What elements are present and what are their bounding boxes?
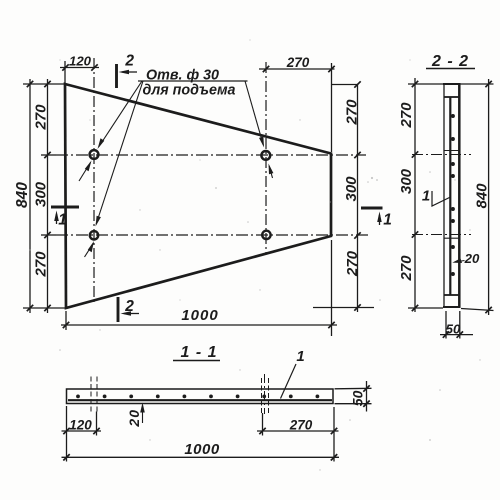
section 2-2 chain line bbox=[414, 78, 416, 312]
svg-text:Отв. ф 30: Отв. ф 30 bbox=[146, 68, 219, 84]
dim 1000 main ext right bbox=[331, 240, 333, 336]
section mark 2 top arrow bbox=[122, 71, 137, 73]
section 2-2 dim 840 tick top bbox=[485, 81, 491, 87]
left chain ext row2 bbox=[41, 234, 56, 236]
right chain line bbox=[357, 85, 359, 313]
dim 840 tick bottom bbox=[27, 305, 33, 311]
section 2-2 dim 50 line bbox=[440, 334, 473, 336]
section 1-1 dim 1000 ext left bbox=[66, 406, 68, 462]
left chain line bbox=[47, 79, 49, 313]
section 2-2 plate bottom edge bbox=[443, 306, 461, 308]
section 1-1 dim 50 ext top bbox=[335, 387, 372, 390]
dim 120 line bbox=[60, 67, 99, 69]
svg-text:2: 2 bbox=[124, 53, 134, 70]
section 2-2 rebar bar bbox=[449, 97, 451, 295]
svg-text:270: 270 bbox=[289, 418, 313, 433]
left chain ext row1 bbox=[41, 154, 56, 156]
svg-text:120: 120 bbox=[69, 54, 92, 69]
section 1-1 dim 270 line bbox=[257, 430, 339, 432]
section 1-1 dim 270 tick left bbox=[259, 428, 265, 434]
dim 270 top extension bbox=[331, 63, 333, 152]
left chain tick y84 bbox=[44, 81, 50, 87]
dim 1000 main ext left bbox=[65, 311, 67, 330]
plate outline (trapezoid) bbox=[65, 84, 331, 308]
section mark 2 bottom arrow bbox=[124, 313, 139, 315]
section 1-1 dim 270 ext left bbox=[262, 413, 264, 436]
section 2-2 chain tick y154 bbox=[412, 151, 418, 157]
section 1-1 hole centerline right pair bbox=[261, 378, 263, 413]
leader shelf bbox=[138, 80, 248, 82]
dim 270 top tick right bbox=[328, 66, 334, 72]
section 2-2 chain ext bottom bbox=[408, 307, 443, 309]
section 2-2 chain tick y84 bbox=[412, 81, 418, 87]
section 2-2 dim 20 arrow bbox=[455, 261, 465, 263]
section 1-1 dim 1000 tick right bbox=[331, 454, 337, 460]
section 1-1 plate outline bbox=[67, 389, 334, 404]
section 2-2 rebar label leader bbox=[432, 191, 451, 206]
section 1-1 dim 270 tick right bbox=[331, 428, 337, 434]
svg-text:270: 270 bbox=[286, 55, 310, 70]
section 1-1 dim 1000 tick left bbox=[63, 454, 69, 460]
section mark 1 left bbox=[51, 206, 79, 209]
svg-text:300: 300 bbox=[343, 176, 360, 202]
section 1-1 rebar dots bbox=[76, 395, 80, 399]
section 2-2 centerline row1 bbox=[412, 154, 471, 156]
svg-text:300: 300 bbox=[398, 168, 415, 194]
section 2-2 chain ext top bbox=[408, 83, 443, 85]
section 2-2 dim 50 ext left bbox=[445, 311, 447, 339]
svg-text:20: 20 bbox=[464, 251, 480, 266]
dim 840 ext top bbox=[23, 83, 64, 85]
section 1-1 dim 120 tick right bbox=[93, 428, 99, 434]
centerline horizontal top hole row bbox=[56, 154, 366, 156]
section 1-1 dim 120 ext right bbox=[96, 412, 98, 436]
section 2-2 title underline bbox=[426, 68, 475, 70]
section 2-2 dim 840 ext bottom bbox=[461, 309, 494, 311]
svg-text:2: 2 bbox=[124, 298, 134, 315]
svg-text:50: 50 bbox=[350, 390, 366, 406]
left chain tick y308 bbox=[44, 305, 50, 311]
section 2-2 dim 50 ext right bbox=[459, 311, 461, 339]
section 2-2 plate left edge bbox=[443, 84, 445, 307]
dim 270 top tick left bbox=[263, 66, 269, 72]
section 1-1 dim 120 line bbox=[62, 430, 102, 432]
leader to bottom-left hole bbox=[96, 81, 143, 224]
right chain top boundary bbox=[332, 84, 358, 86]
section 1-1 dim 1000 line bbox=[62, 456, 340, 458]
svg-text:1: 1 bbox=[422, 188, 430, 205]
scan noise speckles bbox=[29, 39, 480, 470]
hole top-right bbox=[261, 151, 270, 160]
right chain bottom boundary bbox=[313, 307, 374, 309]
svg-text:270: 270 bbox=[33, 251, 50, 278]
section 1-1 dim 50 ext bottom bbox=[335, 403, 372, 405]
right chain tick y307 bbox=[354, 304, 360, 310]
left chain tick y235 bbox=[44, 232, 50, 238]
centerline vertical right hole column bbox=[265, 62, 267, 254]
section mark 2 bottom bbox=[117, 297, 120, 322]
section mark 1 left arrow bbox=[56, 214, 58, 224]
section 1-1 dim 1000 ext right bbox=[333, 407, 335, 462]
section 2-2 cap line top bbox=[444, 96, 459, 98]
leader stub bottom-left hole bbox=[85, 245, 93, 258]
section 2-2 chain tick y308 bbox=[412, 305, 418, 311]
svg-text:840: 840 bbox=[474, 183, 491, 209]
svg-text:270: 270 bbox=[398, 255, 415, 282]
section 2-2 plate top edge bbox=[443, 83, 461, 85]
section 1-1 dim 120 tick left bbox=[63, 428, 69, 434]
section 2-2 dim 50 tick right bbox=[457, 331, 463, 337]
section 1-1 dim 20 arrow bbox=[142, 405, 144, 423]
hole top-left bbox=[90, 150, 99, 159]
section 1-1 title underline bbox=[173, 360, 220, 362]
section 2-2 dim 840 ext top bbox=[461, 83, 494, 85]
section 2-2 hole edge row2 bbox=[444, 237, 461, 239]
dim 1000 main tick left bbox=[63, 322, 69, 328]
right chain tick y235 bbox=[354, 232, 360, 238]
svg-text:270: 270 bbox=[344, 250, 361, 277]
svg-text:1 - 1: 1 - 1 bbox=[180, 344, 217, 361]
dim 270 top line bbox=[259, 68, 335, 70]
svg-text:1: 1 bbox=[383, 212, 392, 229]
centerline vertical left hole column bbox=[93, 58, 95, 302]
SECTION 1-1 bbox=[67, 361, 334, 415]
section 2-2 dim 840 line bbox=[488, 79, 490, 315]
dim 840 tick top bbox=[27, 81, 33, 87]
section 2-2 chain tick y234 bbox=[412, 231, 418, 237]
svg-text:2 - 2: 2 - 2 bbox=[431, 53, 469, 70]
section mark 1 right arrow bbox=[379, 215, 381, 225]
section 2-2 hole edge row1 bbox=[444, 150, 461, 152]
dim 1000 main tick right bbox=[328, 322, 334, 328]
svg-text:1000: 1000 bbox=[181, 307, 218, 324]
leader to top-right hole bbox=[245, 81, 263, 145]
svg-text:120: 120 bbox=[69, 418, 92, 433]
section mark 2 top bbox=[115, 64, 118, 88]
right chain tick y155 bbox=[354, 152, 360, 158]
dim 120 tick right bbox=[91, 64, 97, 70]
svg-text:20: 20 bbox=[126, 409, 142, 428]
hole bottom-right bbox=[262, 231, 270, 239]
section 1-1 dim 50 tick top bbox=[363, 385, 369, 391]
dim 1000 main line bbox=[61, 324, 337, 326]
section 2-2 cap line bottom bbox=[444, 294, 459, 296]
section 2-2 plate right edge bbox=[458, 84, 461, 307]
centerline horizontal bottom hole row bbox=[56, 234, 371, 236]
SECTION 2-2 bbox=[412, 69, 475, 308]
dim 840 ext bottom bbox=[23, 307, 65, 309]
hole bottom-left bbox=[90, 231, 98, 239]
svg-text:840: 840 bbox=[14, 182, 31, 208]
section 2-2 rebar dots bbox=[451, 114, 455, 118]
section 1-1 rebar label leader bbox=[281, 364, 297, 399]
section 1-1 rebar bar bbox=[68, 399, 332, 401]
section 2-2 centerline row2 bbox=[412, 234, 471, 236]
svg-text:300: 300 bbox=[33, 181, 50, 207]
leader to top-left hole bbox=[99, 81, 142, 147]
section 2-2 dim 50 tick left bbox=[443, 331, 449, 337]
svg-text:1: 1 bbox=[296, 348, 304, 365]
left chain tick y155 bbox=[44, 152, 50, 158]
svg-text:270: 270 bbox=[398, 102, 415, 129]
dim 120 extension bbox=[64, 61, 66, 83]
svg-text:270: 270 bbox=[33, 104, 50, 131]
section mark 1 right bbox=[361, 207, 383, 210]
section 1-1 dim 50 line bbox=[366, 381, 368, 412]
dim 840 line bbox=[29, 79, 31, 313]
svg-text:1000: 1000 bbox=[184, 441, 220, 458]
leader stub top-right hole bbox=[269, 166, 272, 178]
right chain tick y68 bbox=[354, 81, 360, 87]
svg-text:50: 50 bbox=[446, 322, 461, 337]
svg-text:1: 1 bbox=[58, 212, 67, 229]
svg-text:для подъема: для подъема bbox=[142, 83, 235, 99]
svg-text:270: 270 bbox=[344, 99, 361, 126]
section 1-1 hole lines left pair bbox=[90, 377, 92, 412]
dim 120 tick left bbox=[62, 64, 68, 70]
section 2-2 dim 840 tick bottom bbox=[485, 307, 491, 313]
leader stub top-left hole bbox=[79, 163, 91, 182]
section 1-1 dim 50 tick bottom bbox=[363, 401, 369, 407]
